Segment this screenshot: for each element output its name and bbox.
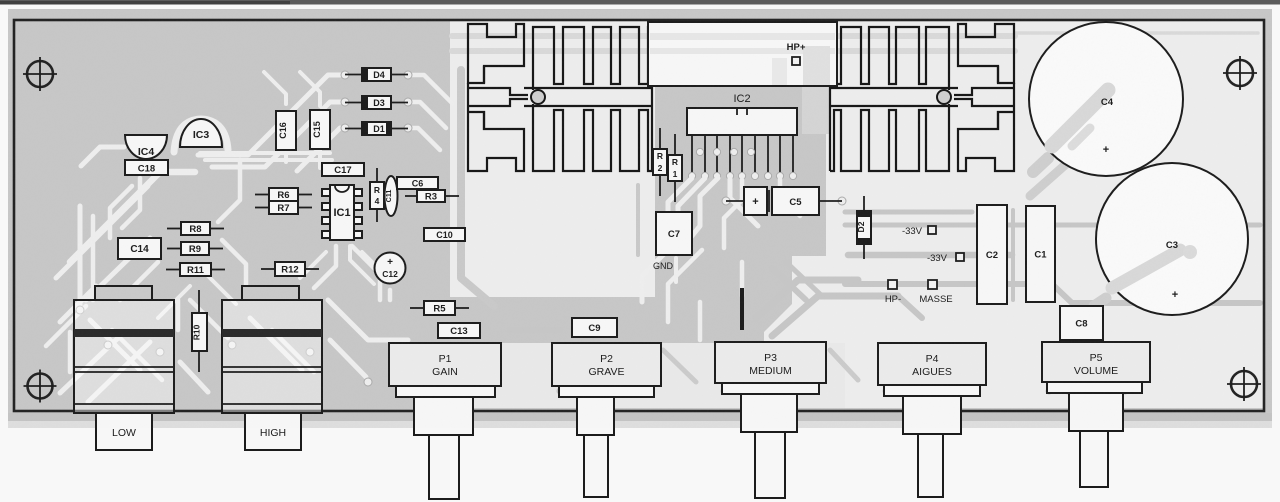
solder pad — [104, 341, 112, 349]
capacitor C8 — [1060, 306, 1103, 340]
wire — [318, 149, 322, 168]
solder pad — [76, 306, 84, 314]
capacitor C12 — [375, 253, 406, 284]
wire — [845, 223, 1260, 228]
capacitor C7 — [656, 212, 692, 255]
wire — [756, 280, 858, 318]
ghost pad ring — [580, 389, 610, 419]
wire — [176, 300, 181, 330]
wire — [60, 286, 96, 322]
wire — [314, 246, 336, 288]
solder pad — [228, 341, 236, 349]
net -33V upper — [902, 226, 936, 237]
wire — [300, 72, 320, 106]
transistor IC3 — [180, 119, 222, 147]
wire — [330, 340, 366, 377]
copper lake right zone — [826, 20, 1264, 408]
pad row — [395, 388, 478, 395]
solder pad — [341, 71, 349, 79]
solder pad — [404, 71, 412, 79]
solder pad — [306, 348, 314, 356]
op-amp IC1 — [322, 185, 362, 240]
wire — [1011, 210, 1015, 300]
wire — [212, 102, 340, 167]
grey trace bleed below HP+ box — [802, 86, 830, 134]
pad row — [883, 388, 966, 395]
wire to P3 — [740, 262, 745, 296]
resistor R12 — [261, 262, 319, 276]
wire — [297, 128, 340, 171]
copper lake left of heatsink zone — [450, 20, 655, 297]
wire — [200, 151, 330, 155]
net MASSE — [919, 280, 952, 305]
pads under IC2 — [696, 148, 754, 155]
wire — [60, 338, 118, 393]
op-amp IC2 — [687, 108, 797, 135]
potentiometer P4 AIGUES — [878, 343, 986, 497]
resistor R7 — [255, 201, 312, 214]
diode D1 — [345, 122, 408, 135]
board shadow below — [8, 413, 1272, 421]
wire — [205, 158, 332, 162]
wire — [1094, 298, 1106, 306]
mounting hole — [23, 57, 57, 91]
connector HIGH — [222, 286, 322, 450]
wire — [70, 172, 195, 262]
resistor R4 — [370, 168, 384, 222]
wire halo over IC3 — [174, 119, 228, 152]
connector LOW — [74, 286, 174, 450]
solder pad — [364, 378, 372, 386]
wire — [328, 300, 408, 340]
wire — [300, 252, 326, 278]
wire — [668, 250, 702, 322]
wire mark above P3 — [740, 288, 744, 330]
capacitor C13 — [438, 323, 480, 338]
wire — [663, 350, 696, 382]
wire fan from IC2 pins — [668, 178, 800, 248]
wire — [120, 262, 158, 300]
potentiometer P3 MEDIUM — [715, 342, 826, 498]
resistor R9 — [167, 242, 223, 255]
solder pad — [341, 124, 349, 132]
wire — [68, 332, 73, 372]
wire — [898, 296, 922, 318]
wire — [264, 72, 286, 104]
wire — [636, 185, 640, 255]
heatsink right — [830, 24, 1014, 171]
wire near C7 — [674, 258, 678, 282]
wire — [698, 302, 703, 340]
copper lake patch right of P3 — [764, 256, 826, 346]
wire — [350, 246, 374, 284]
wire — [461, 70, 494, 306]
capacitor C6 — [397, 177, 438, 189]
wire — [362, 252, 390, 280]
wire — [848, 252, 1012, 259]
wire — [110, 186, 132, 238]
wire — [408, 128, 440, 150]
wire — [786, 262, 822, 296]
wire — [250, 318, 302, 370]
pad HP+ — [792, 57, 800, 65]
board body grey — [8, 9, 1272, 413]
wire — [845, 284, 1260, 303]
potentiometer P1 GAIN — [389, 343, 501, 499]
scan band — [452, 48, 1015, 54]
capacitor C2 — [977, 205, 1007, 304]
board outline — [14, 20, 1264, 411]
heatsink left — [468, 24, 652, 171]
net -33V lower — [927, 253, 964, 264]
wire — [352, 246, 380, 300]
capacitor C10 — [424, 228, 465, 241]
svg-text:LOW: LOW — [112, 427, 136, 439]
wire — [1030, 150, 1082, 196]
capacitor C1 — [1026, 206, 1055, 302]
resistor R8 — [167, 222, 224, 235]
wire — [510, 327, 560, 333]
mounting hole — [24, 370, 57, 403]
wire — [198, 75, 340, 155]
wire — [408, 102, 446, 128]
power connector box HP+ — [648, 22, 837, 86]
diode D2 — [856, 196, 871, 259]
pad C5 leads — [722, 197, 730, 205]
mounting hole — [1223, 56, 1257, 90]
wire — [222, 240, 246, 292]
ghost pad ring — [917, 389, 947, 419]
resistor R10 — [192, 290, 208, 372]
wire — [642, 240, 678, 302]
wire — [122, 178, 140, 228]
wire — [845, 210, 972, 215]
heatsink right hole — [937, 90, 951, 104]
capacitor C5 — [726, 187, 842, 215]
capacitor C3 — [1096, 163, 1248, 315]
wire — [112, 330, 162, 380]
wire — [56, 186, 148, 278]
pad row — [721, 388, 804, 395]
IC2 pin pads — [688, 172, 796, 179]
capacitor C11 — [385, 176, 398, 216]
wire — [218, 160, 240, 222]
wire — [90, 320, 140, 370]
potentiometer P2 GRAVE — [552, 343, 661, 497]
wire — [830, 350, 858, 380]
potentiometer P5 VOLUME — [1042, 342, 1150, 487]
wire — [1033, 158, 1048, 172]
resistor R6 — [255, 188, 312, 201]
capacitor C4 — [1029, 22, 1183, 176]
wire — [772, 296, 898, 336]
wire — [388, 290, 393, 300]
resistor R2 — [653, 128, 667, 196]
wire — [284, 150, 288, 162]
ghost pad ring — [428, 389, 458, 419]
heatsink left hole — [531, 90, 545, 104]
wire — [88, 342, 150, 402]
capacitor C9 — [572, 318, 617, 337]
diode D3 — [345, 96, 408, 109]
capacitor C16 — [276, 111, 296, 150]
resistor R5 — [410, 301, 469, 315]
wire — [190, 300, 228, 338]
solder pad — [404, 124, 412, 132]
scan edge strip top — [0, 0, 1280, 5]
copper lake bottom pots zone — [450, 343, 845, 408]
solder pad — [156, 348, 164, 356]
wire — [81, 147, 124, 166]
capacitor C15 — [310, 110, 330, 149]
scan band — [452, 33, 1015, 39]
resistor R11 — [166, 263, 225, 276]
wire — [91, 216, 96, 300]
mounting hole — [1227, 367, 1261, 401]
capacitor C18 — [125, 160, 168, 175]
wire — [208, 276, 236, 304]
ghost pad ring — [754, 389, 784, 419]
diode D4 — [345, 68, 408, 81]
wire — [158, 286, 190, 318]
solder pad — [404, 98, 412, 106]
ghost pad ring — [1081, 389, 1111, 419]
wire — [78, 206, 83, 305]
resistor R1 — [668, 134, 682, 202]
wire — [772, 268, 806, 300]
resistor R3 — [405, 190, 459, 202]
wire — [272, 330, 314, 372]
svg-text:HIGH: HIGH — [260, 427, 286, 439]
IC2 pins — [692, 135, 793, 173]
wire — [180, 362, 208, 392]
capacitor C14 — [118, 238, 161, 259]
net HP- — [885, 280, 901, 305]
pad row — [1046, 388, 1129, 395]
transistor IC4 — [125, 135, 167, 159]
wire — [408, 75, 452, 103]
capacitor C17 — [322, 163, 364, 176]
wire — [86, 238, 150, 300]
pad row — [557, 388, 640, 395]
scan band — [1015, 31, 1258, 35]
wire — [46, 306, 86, 346]
solder pad — [341, 98, 349, 106]
